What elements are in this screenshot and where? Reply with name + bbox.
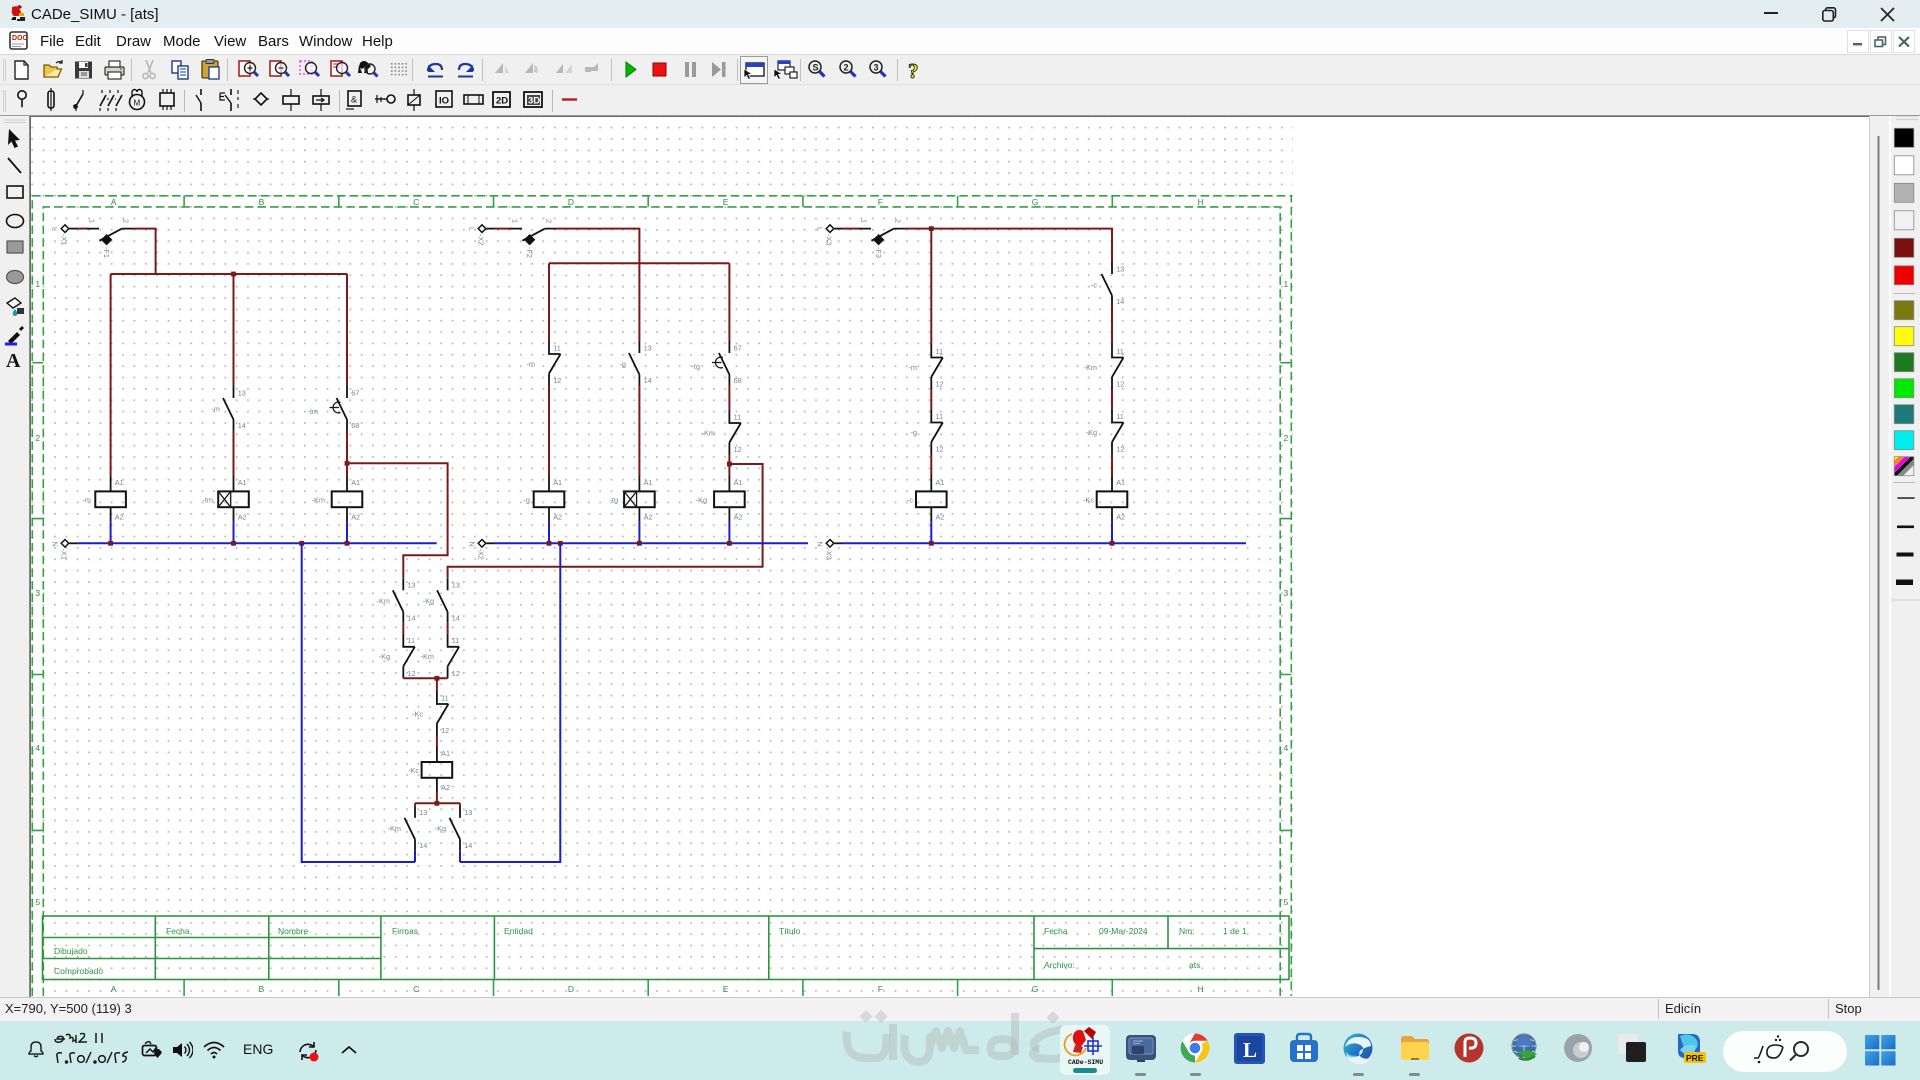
svg-text:-m: -m xyxy=(908,363,917,372)
wire branch Kg xyxy=(728,263,730,341)
wire between xyxy=(930,389,932,410)
contact -Kg 13/14 NO (lower row1) xyxy=(423,578,460,623)
svg-text:1: 1 xyxy=(511,219,520,223)
IO xyxy=(436,91,452,107)
svg-text:Nombre: Nombre xyxy=(278,926,309,936)
coil -c xyxy=(907,476,947,522)
svg-text:A1: A1 xyxy=(351,478,360,487)
svg-text:-X1: -X1 xyxy=(60,549,69,560)
svg-text:-Kg: -Kg xyxy=(696,495,707,504)
junction N2/-g xyxy=(547,541,552,546)
junction N/-m xyxy=(108,541,113,546)
watermark xyxy=(838,1005,1088,1075)
wire L2 to F2 xyxy=(494,228,511,230)
contact -Km 11/12 NC (s3) xyxy=(1084,345,1125,390)
svg-text:12: 12 xyxy=(441,726,449,735)
motor xyxy=(130,95,145,110)
zoom sel xyxy=(300,61,319,76)
svg-text:S: S xyxy=(813,63,819,73)
svg-text:11: 11 xyxy=(936,347,944,356)
contact E xyxy=(230,89,232,111)
taskbar icon: chrome xyxy=(1179,1032,1211,1064)
svg-text:2: 2 xyxy=(844,63,849,73)
coil -tm (timer) xyxy=(202,476,248,522)
drawing frame inner dashed border xyxy=(43,207,1280,996)
svg-text:Dibujado: Dibujado xyxy=(54,946,88,956)
coil xyxy=(290,89,292,111)
junction N3/-c xyxy=(929,541,934,546)
coil -Kc (lower) xyxy=(408,747,452,793)
svg-text:-m: -m xyxy=(211,404,220,413)
svg-text:3: 3 xyxy=(1284,588,1289,598)
svg-text:A1: A1 xyxy=(115,478,124,487)
svg-text:-c: -c xyxy=(1091,280,1097,289)
wire contact to junction xyxy=(346,431,348,477)
svg-text:G: G xyxy=(1032,984,1039,994)
contact -g 11/12 NC (s3) xyxy=(911,410,944,455)
svg-text:4: 4 xyxy=(35,743,40,753)
line xyxy=(8,158,21,173)
zoom1/2/3 xyxy=(809,61,825,77)
svg-text:14: 14 xyxy=(1116,297,1124,306)
wire to coil g xyxy=(548,386,550,477)
ellipse xyxy=(7,215,24,228)
svg-text:2: 2 xyxy=(894,219,903,223)
svg-text:N: N xyxy=(816,542,825,547)
svg-text:H: H xyxy=(1198,197,1204,207)
wire split row3 xyxy=(415,802,460,804)
wire between xyxy=(1111,307,1113,345)
contact -c 13/14 NO (s3) xyxy=(1091,262,1124,307)
svg-text:A1: A1 xyxy=(1116,478,1125,487)
svg-text:A1: A1 xyxy=(734,478,743,487)
taskbar icon: gray sphere xyxy=(1562,1032,1594,1064)
palette panel edge xyxy=(1889,116,1891,997)
svg-text:A2: A2 xyxy=(351,512,360,521)
svg-text:-F3: -F3 xyxy=(874,247,883,258)
coil2 xyxy=(320,89,322,111)
wire branch Km xyxy=(346,274,348,386)
title block xyxy=(43,916,1290,980)
contact -Kg 11/12 NC (s3) xyxy=(1086,410,1125,455)
contact -tg 67/68 timer NO xyxy=(691,341,741,386)
neutral wire section3 xyxy=(842,542,1246,544)
svg-text:-g: -g xyxy=(911,428,918,437)
dropper xyxy=(5,326,24,344)
tray clock (arabic) xyxy=(52,1029,130,1069)
svg-text:A1: A1 xyxy=(238,478,247,487)
terminal -X2 L xyxy=(468,225,495,246)
svg-text:C: C xyxy=(413,984,419,994)
wire -tm A2 to N xyxy=(233,521,235,543)
copy xyxy=(172,61,188,79)
svg-text:11: 11 xyxy=(452,636,460,645)
tray sync xyxy=(295,1038,321,1064)
svg-text:11: 11 xyxy=(441,693,449,702)
svg-text:-F1: -F1 xyxy=(102,247,111,258)
svg-text:D: D xyxy=(568,984,574,994)
cade-simu taskbar button xyxy=(1060,1025,1110,1075)
svg-text:Comprobado: Comprobado xyxy=(54,966,103,976)
contact -Km 11/12 NC xyxy=(702,410,742,455)
svg-text:-Kc: -Kc xyxy=(1083,495,1094,504)
svg-text:A2: A2 xyxy=(936,512,945,521)
svg-text:A: A xyxy=(6,350,21,372)
junction bus/branch2 xyxy=(231,272,236,277)
svg-text:2: 2 xyxy=(122,219,131,223)
svg-text:CADe-SIMU: CADe-SIMU xyxy=(1068,1059,1103,1066)
svg-text:14: 14 xyxy=(408,614,416,623)
svg-text:67: 67 xyxy=(351,388,359,397)
app icon xyxy=(8,4,28,24)
junction N/-tm xyxy=(231,541,236,546)
contact -Km 13/14 NO (lower row3) xyxy=(388,806,428,851)
svg-text:B: B xyxy=(259,984,265,994)
sep xyxy=(227,59,229,81)
taskbar icon: idm xyxy=(1509,1032,1541,1064)
coil -tg (timer) xyxy=(609,476,654,522)
svg-text:L: L xyxy=(468,227,477,231)
wire stub left row3 xyxy=(414,803,416,806)
svg-text:A2: A2 xyxy=(553,512,562,521)
tray caret xyxy=(340,1044,358,1056)
zoom page xyxy=(331,61,350,76)
svg-text:-c: -c xyxy=(907,495,913,504)
svg-text:A2: A2 xyxy=(644,512,653,521)
svg-text:IO: IO xyxy=(439,96,449,107)
svg-text:5: 5 xyxy=(35,897,40,907)
sep xyxy=(897,59,899,81)
wire -Kg A2 to N xyxy=(728,521,730,543)
contact NO xyxy=(200,89,202,111)
contact -Km 11/12 NC (lower row2) xyxy=(421,634,460,679)
coil -Kg xyxy=(696,476,745,522)
junction N2/-Kg xyxy=(727,541,732,546)
svg-text:1: 1 xyxy=(860,219,869,223)
svg-text:L: L xyxy=(816,227,825,231)
grid icon xyxy=(391,63,407,75)
svg-text:14: 14 xyxy=(419,841,427,850)
pin xyxy=(18,91,26,99)
wire -m A2 to N xyxy=(110,521,112,543)
terminal -X1 N xyxy=(51,540,78,560)
svg-text:2: 2 xyxy=(545,219,554,223)
wire branch m-coil xyxy=(110,274,112,476)
contact -g 13/14 NO xyxy=(620,341,652,386)
junction row3 xyxy=(435,801,440,806)
drawing frame outer dashed border xyxy=(32,196,1291,996)
gripper xyxy=(4,59,6,81)
svg-text:-Kg: -Kg xyxy=(379,652,390,661)
svg-text:Entidad: Entidad xyxy=(504,926,533,936)
wire coil to junction3 xyxy=(436,792,438,803)
wire bus row1 xyxy=(111,273,347,275)
wire F3 bus xyxy=(905,229,1112,262)
svg-text:14: 14 xyxy=(238,421,246,430)
bus xyxy=(464,95,483,104)
terminal -X2 N xyxy=(468,540,495,560)
bucket xyxy=(7,298,24,316)
taskbar icon: psiphon xyxy=(1453,1032,1485,1064)
svg-text:3D: 3D xyxy=(528,96,540,107)
svg-text:2: 2 xyxy=(1284,433,1289,443)
svg-text:-X1: -X1 xyxy=(60,234,69,245)
svg-text:1: 1 xyxy=(1284,279,1289,289)
svg-text:13: 13 xyxy=(452,581,460,590)
MDI buttons xyxy=(1847,30,1917,53)
2D 3D xyxy=(493,92,510,107)
svg-text:-Kg: -Kg xyxy=(423,597,434,606)
redo xyxy=(458,64,473,77)
wire to coil Kc2 xyxy=(436,736,438,747)
svg-text:13: 13 xyxy=(644,343,652,352)
junction Kg/branch xyxy=(727,462,732,467)
wire -tg A2 to N xyxy=(638,521,640,543)
svg-text:-Kg: -Kg xyxy=(1086,428,1097,437)
svg-text:13: 13 xyxy=(1116,264,1124,273)
svg-text:12: 12 xyxy=(936,380,944,389)
terminal -X3 N xyxy=(816,540,843,560)
wire branch to lower Kg contact xyxy=(448,464,763,578)
zoom- doc xyxy=(270,61,289,76)
svg-text:-X3: -X3 xyxy=(825,549,834,560)
neutral drop 2 to lower circuit xyxy=(460,543,560,862)
svg-text:5: 5 xyxy=(1284,897,1289,907)
svg-text:-X2: -X2 xyxy=(477,549,486,560)
svg-text:A2: A2 xyxy=(115,512,124,521)
svg-text:2: 2 xyxy=(35,433,40,443)
svg-text:-Km: -Km xyxy=(377,597,390,606)
red line tool xyxy=(562,98,577,100)
wire to coil c xyxy=(930,454,932,476)
svg-text:E: E xyxy=(723,197,729,207)
junction F3/c-branch xyxy=(929,226,934,231)
taskbar icon: system xyxy=(1125,1032,1157,1064)
play xyxy=(626,62,636,77)
svg-text:12: 12 xyxy=(452,669,460,678)
wire to coil tg xyxy=(638,386,640,477)
wire L1 to F1 xyxy=(77,228,88,230)
svg-text:3: 3 xyxy=(35,588,40,598)
step xyxy=(712,62,726,77)
svg-text:E: E xyxy=(723,984,729,994)
svg-text:11: 11 xyxy=(408,636,416,645)
sep xyxy=(737,59,739,81)
svg-text:&: & xyxy=(351,95,357,105)
neutral wire section1 xyxy=(77,542,437,544)
svg-text:-Km: -Km xyxy=(312,495,325,504)
svg-text:-g: -g xyxy=(620,359,627,368)
find xyxy=(358,61,378,77)
svg-text:13: 13 xyxy=(464,808,472,817)
svg-text:-Km: -Km xyxy=(388,824,401,833)
cut (disabled) xyxy=(143,60,155,79)
wire to coil Kc xyxy=(1111,454,1113,476)
junction N/-Km xyxy=(345,541,350,546)
wire -Kc A2 to N xyxy=(1111,521,1113,543)
wire branch tm xyxy=(233,274,235,386)
new xyxy=(15,61,28,79)
contact -tm 67/68 timer NO xyxy=(307,386,359,431)
svg-text:-Km: -Km xyxy=(1084,363,1097,372)
svg-text:A2: A2 xyxy=(734,512,743,521)
windows start xyxy=(1865,1035,1896,1066)
contact -Kg 11/12 NC (lower row2) xyxy=(379,634,416,679)
svg-text:L: L xyxy=(51,227,60,231)
svg-text:09-Mar-2024: 09-Mar-2024 xyxy=(1099,926,1148,936)
svg-text:-X3: -X3 xyxy=(825,234,834,245)
svg-text:G: G xyxy=(1032,197,1039,207)
column letters xyxy=(111,197,1204,994)
logic & xyxy=(348,91,361,106)
junction N/drop1 xyxy=(299,541,304,546)
coil -Kc xyxy=(1083,476,1127,522)
svg-text:12: 12 xyxy=(936,445,944,454)
svg-text:?: ? xyxy=(908,59,919,83)
wire row3 left to neutral xyxy=(414,850,416,862)
svg-text:1: 1 xyxy=(88,219,97,223)
menubar doc icon xyxy=(9,31,30,52)
contact -Kg 13/14 NO (lower row3) xyxy=(435,806,473,851)
solenoid xyxy=(413,89,415,111)
svg-text:DOC: DOC xyxy=(12,35,28,42)
wire F2 out to corner xyxy=(556,229,639,341)
contact -m 13/14 NO xyxy=(211,386,245,431)
sep xyxy=(611,59,613,81)
junction N2/-tg xyxy=(637,541,642,546)
svg-text:F: F xyxy=(878,197,883,207)
svg-text:11: 11 xyxy=(936,412,944,421)
svg-text:PRE: PRE xyxy=(1686,1053,1704,1063)
contact -Km 13/14 NO (lower row1) xyxy=(377,578,416,623)
coil -g xyxy=(524,476,565,522)
junction N3/-Kc xyxy=(1110,541,1115,546)
zoom+ doc xyxy=(239,61,258,76)
svg-text:A2: A2 xyxy=(1116,512,1125,521)
coil -Km xyxy=(312,476,363,522)
svg-text:Archivo:: Archivo: xyxy=(1044,960,1075,970)
svg-text:-Kg: -Kg xyxy=(435,824,446,833)
svg-text:1: 1 xyxy=(35,279,40,289)
svg-text:F: F xyxy=(878,984,883,994)
wire join row2 xyxy=(403,677,447,679)
breaker -F2 xyxy=(510,219,556,258)
tray bell xyxy=(26,1040,46,1060)
svg-text:2D: 2D xyxy=(496,96,508,107)
tray battery icon xyxy=(141,1041,165,1059)
svg-text:13: 13 xyxy=(238,388,246,397)
stop xyxy=(653,63,666,76)
wire F1 out to corner xyxy=(133,229,156,274)
svg-text:A1: A1 xyxy=(644,478,653,487)
filled ellipse xyxy=(7,271,24,284)
wire row3 right to neutral xyxy=(459,850,461,862)
svg-text:68: 68 xyxy=(734,376,742,385)
diamond xyxy=(255,93,267,105)
breaker -F3 xyxy=(859,219,905,258)
svg-text:A1: A1 xyxy=(441,749,450,758)
window close xyxy=(1880,7,1895,22)
row numbers xyxy=(35,279,1288,907)
coil -m xyxy=(82,476,125,522)
svg-text:M: M xyxy=(134,99,141,108)
svg-text:67: 67 xyxy=(734,343,742,352)
wire contact to coil tm xyxy=(233,431,235,477)
taskbar icon: edge xyxy=(1342,1032,1374,1064)
wire branch to lower Km contact xyxy=(347,463,448,578)
window restore xyxy=(1822,7,1837,22)
terminal -X1 L xyxy=(51,225,78,246)
svg-text:Fecha: Fecha xyxy=(1044,926,1068,936)
paste xyxy=(202,60,219,80)
undo xyxy=(428,64,443,77)
svg-text:B: B xyxy=(259,197,265,207)
svg-text:A1: A1 xyxy=(936,478,945,487)
svg-text:D: D xyxy=(568,197,574,207)
page grid dots xyxy=(30,117,1293,997)
terminal -X3 L xyxy=(816,225,843,246)
svg-text:12: 12 xyxy=(553,376,561,385)
svg-text:ats: ats xyxy=(1189,960,1200,970)
switch xyxy=(76,94,83,106)
wire to junction xyxy=(728,455,730,477)
svg-text:11: 11 xyxy=(553,343,561,352)
svg-text:H: H xyxy=(1198,984,1204,994)
scrollbar thumb line xyxy=(1878,136,1880,990)
plc xyxy=(160,93,174,106)
rotate disabled icons xyxy=(495,63,509,73)
svg-text:14: 14 xyxy=(452,614,460,623)
svg-text:12: 12 xyxy=(1116,445,1124,454)
title block texts xyxy=(54,926,1247,976)
svg-text:A1: A1 xyxy=(553,478,562,487)
svg-text:68: 68 xyxy=(351,421,359,430)
wire row1-row2 left xyxy=(402,623,404,634)
svg-text:14: 14 xyxy=(464,841,472,850)
svg-text:Título: Título xyxy=(779,926,801,936)
wire branch c-coil xyxy=(930,229,932,345)
svg-text:11: 11 xyxy=(734,412,742,421)
svg-text:Fecha: Fecha xyxy=(166,926,190,936)
sep xyxy=(131,59,133,81)
svg-text:N: N xyxy=(468,542,477,547)
svg-text:11: 11 xyxy=(1116,412,1124,421)
neutral wire section2 xyxy=(494,542,808,544)
row ticks xyxy=(32,363,1291,831)
save xyxy=(75,62,92,79)
svg-text:-X2: -X2 xyxy=(477,234,486,245)
column ticks bottom xyxy=(184,980,1112,996)
svg-text:1 de 1: 1 de 1 xyxy=(1223,926,1247,936)
svg-text:3: 3 xyxy=(874,63,879,73)
H-O xyxy=(375,98,387,100)
svg-text:14: 14 xyxy=(644,376,652,385)
pause xyxy=(685,62,696,77)
sep xyxy=(482,59,484,81)
svg-text:L: L xyxy=(1243,1038,1257,1062)
svg-text:13: 13 xyxy=(419,808,427,817)
tray ENG xyxy=(243,1041,273,1057)
taskbar icon: PRE xyxy=(1672,1030,1706,1066)
svg-text:A2: A2 xyxy=(238,512,247,521)
svg-text:4: 4 xyxy=(1284,743,1289,753)
wire branch g-coil xyxy=(548,263,550,341)
svg-text:12: 12 xyxy=(1116,380,1124,389)
svg-text:-F2: -F2 xyxy=(525,247,534,258)
tray wifi xyxy=(203,1041,225,1059)
taskbar icon: folder xyxy=(1399,1033,1431,1063)
svg-text:-Km: -Km xyxy=(702,428,715,437)
